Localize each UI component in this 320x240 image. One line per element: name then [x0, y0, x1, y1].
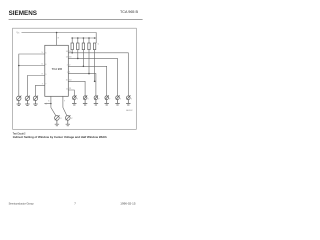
svg-text:9: 9: [45, 74, 46, 76]
wire diagonal to source VZ: [51, 108, 56, 116]
wire resistor rail: [72, 37, 96, 39]
svg-text:1: 1: [67, 72, 68, 74]
op-amp U1 TCA 965 box: [45, 45, 69, 96]
meter M6: [94, 96, 98, 100]
svg-text:6: 6: [45, 64, 46, 66]
resistor R2: [77, 43, 79, 50]
ground below M9: [126, 100, 130, 105]
wire output pin 1 staircase to meter M6: [68, 74, 96, 96]
node R1 rail: [71, 37, 73, 39]
resistor R1: [71, 43, 73, 50]
meter M8: [116, 96, 120, 100]
wire R4 bottom to output net 1: [88, 50, 90, 74]
wire arrow lead at pin 6: [44, 103, 51, 105]
wire input pin 9 to source V2: [27, 76, 44, 97]
source V3: [33, 96, 37, 100]
wire pin 10 staircase to meter M5: [68, 81, 85, 95]
svg-text:5: 5: [45, 52, 46, 54]
wire stub resistor R3 top: [82, 38, 84, 43]
svg-text:13: 13: [69, 57, 71, 59]
svg-text:TCA 965: TCA 965: [52, 67, 63, 71]
svg-text:2: 2: [69, 64, 70, 66]
node R4 rail: [88, 37, 90, 39]
svg-text:7: 7: [64, 101, 65, 103]
wire input pin 10 to source V3: [36, 85, 45, 96]
svg-text:6: 6: [48, 101, 49, 103]
source DV: [66, 116, 71, 121]
ground below V1: [17, 101, 21, 106]
node pin8 on VS rail: [56, 32, 58, 34]
svg-text:5: 5: [42, 52, 43, 54]
wire R5 bottom to output net 10: [94, 50, 96, 82]
meter M7: [105, 96, 109, 100]
svg-text:11: 11: [66, 88, 68, 90]
svg-text:Test Circuit 2: Test Circuit 2: [13, 132, 26, 136]
wire R1 bottom to output net 14: [71, 50, 73, 53]
wire diagonal to source DV: [63, 108, 67, 116]
wire VS rail: [22, 33, 97, 44]
wire R2 bottom to output net 13: [77, 50, 79, 59]
svg-text:7: 7: [42, 84, 43, 86]
meter M4: [73, 96, 77, 100]
svg-text:1: 1: [69, 72, 70, 74]
node R3 output: [83, 66, 85, 68]
node R1 output: [71, 52, 73, 54]
ground below M8: [115, 100, 119, 105]
source V2: [25, 96, 29, 100]
svg-text:10: 10: [69, 79, 71, 81]
wire pin 8 supply stub: [56, 33, 58, 46]
svg-text:TCA 965 B: TCA 965 B: [120, 10, 139, 14]
meter M9: [127, 96, 131, 100]
svg-text:2: 2: [67, 65, 68, 67]
header rule: [9, 18, 143, 21]
node R5 rail: [94, 37, 96, 39]
svg-text:AES02: AES02: [126, 109, 133, 112]
svg-text:6: 6: [42, 64, 43, 66]
node R5 output: [94, 81, 96, 83]
wire pin 6 bottom stub: [50, 96, 52, 107]
wire pin 7 bottom stub: [62, 96, 64, 107]
svg-text:Indirect Setting of Window by: Indirect Setting of Window by Center Vol…: [13, 135, 107, 139]
svg-text:14: 14: [66, 51, 68, 53]
wire R3 bottom to output net 2: [82, 50, 84, 67]
node R2 output: [77, 58, 79, 60]
svg-text:11: 11: [69, 88, 71, 90]
node pin6 arrow junction: [50, 103, 51, 104]
ground below M5: [83, 100, 87, 105]
ground below V3: [33, 101, 37, 106]
node pin6 input tap: [18, 65, 20, 67]
node R4 output: [88, 73, 90, 75]
wire stub resistor R2 top: [77, 38, 79, 43]
source V1: [17, 96, 21, 100]
ground below M4: [72, 100, 76, 105]
ground below M6: [94, 100, 98, 105]
node R2 rail: [77, 37, 79, 39]
wire output pin 2 staircase to meter M7: [68, 66, 106, 95]
svg-text:13: 13: [66, 57, 68, 59]
svg-text:Semiconductor Group: Semiconductor Group: [9, 202, 34, 206]
resistor R5: [93, 43, 95, 50]
wire input pin 6 tap: [19, 65, 45, 67]
wire output pin 13 staircase to meter M8: [68, 58, 117, 95]
source VZ: [55, 116, 60, 121]
wire input pin 5 to source V1: [19, 54, 45, 96]
resistor R4: [88, 43, 90, 50]
meter M5: [83, 96, 87, 100]
svg-text:14: 14: [69, 51, 71, 53]
node dots: [18, 32, 95, 105]
arrowhead on pin 6 lead: [44, 103, 46, 105]
ground below VZ: [55, 120, 59, 126]
ground below M7: [105, 100, 109, 105]
svg-text:7: 7: [45, 84, 46, 86]
svg-text:10: 10: [66, 80, 68, 82]
svg-text:SIEMENS: SIEMENS: [9, 10, 37, 17]
schematic frame: [13, 28, 137, 129]
wire stub resistor R4 top: [88, 38, 90, 43]
node R3 rail: [83, 37, 85, 39]
ground below DV: [66, 120, 70, 126]
resistor R3: [82, 43, 84, 50]
svg-text:1996-02-15: 1996-02-15: [120, 202, 136, 206]
ground below V2: [25, 101, 29, 106]
svg-text:9: 9: [42, 74, 43, 76]
wire stub resistor R1 top: [71, 38, 73, 43]
wire pin 11 staircase to meter M4: [68, 90, 74, 96]
wire output pin 14 staircase to meter M9: [68, 53, 128, 96]
